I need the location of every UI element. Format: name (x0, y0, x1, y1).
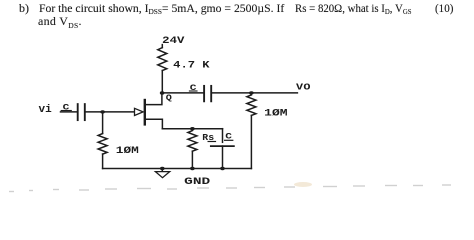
svg-text:24V: 24V (162, 35, 184, 46)
problem text line 1 (19, 2, 29, 14)
node at R4 top (249, 91, 254, 94)
wire Rs to rail (191, 151, 193, 168)
capacitor C1 (input) (78, 104, 85, 120)
resistor R2 10M (left) (98, 134, 107, 155)
ground symbol (155, 169, 169, 178)
node at Rs top (190, 127, 195, 130)
svg-text:vi: vi (39, 104, 53, 116)
transistor Q1 channel bar (144, 100, 146, 124)
ground rail wire (103, 168, 252, 170)
wire C1 to gate (85, 111, 135, 113)
svg-text:4.7 K: 4.7 K (173, 61, 209, 72)
underline of output C label (189, 90, 197, 92)
underline of input C label (61, 110, 71, 112)
wire R1 to node Q (161, 71, 163, 93)
svg-text:GND: GND (184, 177, 210, 188)
svg-text:1ØM: 1ØM (116, 145, 139, 157)
wire gate node to R2 (102, 112, 104, 134)
node Q junction dot (160, 91, 165, 94)
svg-text:Q: Q (166, 94, 172, 103)
wire 24V to R1 (161, 45, 163, 48)
resistor R1 4.7K (158, 48, 167, 71)
capacitor C2 (output) (204, 86, 211, 101)
underline of s in Rs (208, 141, 215, 143)
wire node Q to C2 (162, 92, 203, 94)
svg-text:vo: vo (296, 81, 311, 93)
transistor Q1 source lead (145, 119, 163, 129)
wire C2 to Vo (212, 92, 298, 94)
node at gate / R2 top (100, 110, 105, 113)
capacitor C3 bottom plate (211, 145, 234, 147)
wire R2 to rail (102, 154, 104, 168)
svg-text:C: C (190, 83, 197, 93)
transistor Q1 gate arrow (135, 108, 144, 115)
node C3 bottom (220, 167, 225, 170)
svg-text:1ØM: 1ØM (264, 108, 287, 120)
resistor R3 Rs (188, 131, 197, 152)
capacitor C3 bottom lead (222, 146, 224, 168)
wire source to bypass cap (162, 128, 222, 130)
problem text line 2 (38, 15, 82, 27)
capacitor C3 (bypass) top lead (222, 129, 224, 143)
node ground stem (160, 167, 165, 170)
node Rs bottom (190, 167, 195, 170)
faint tan smudge (294, 182, 312, 187)
transistor Q1 drain lead (145, 93, 162, 105)
faint scan artifacts at page bottom (9, 185, 451, 192)
wire vi to C1 (61, 111, 78, 113)
underline of bypass C label (225, 139, 233, 141)
resistor R4 10M (right) (247, 95, 256, 116)
wire R4 to rail (250, 115, 252, 168)
